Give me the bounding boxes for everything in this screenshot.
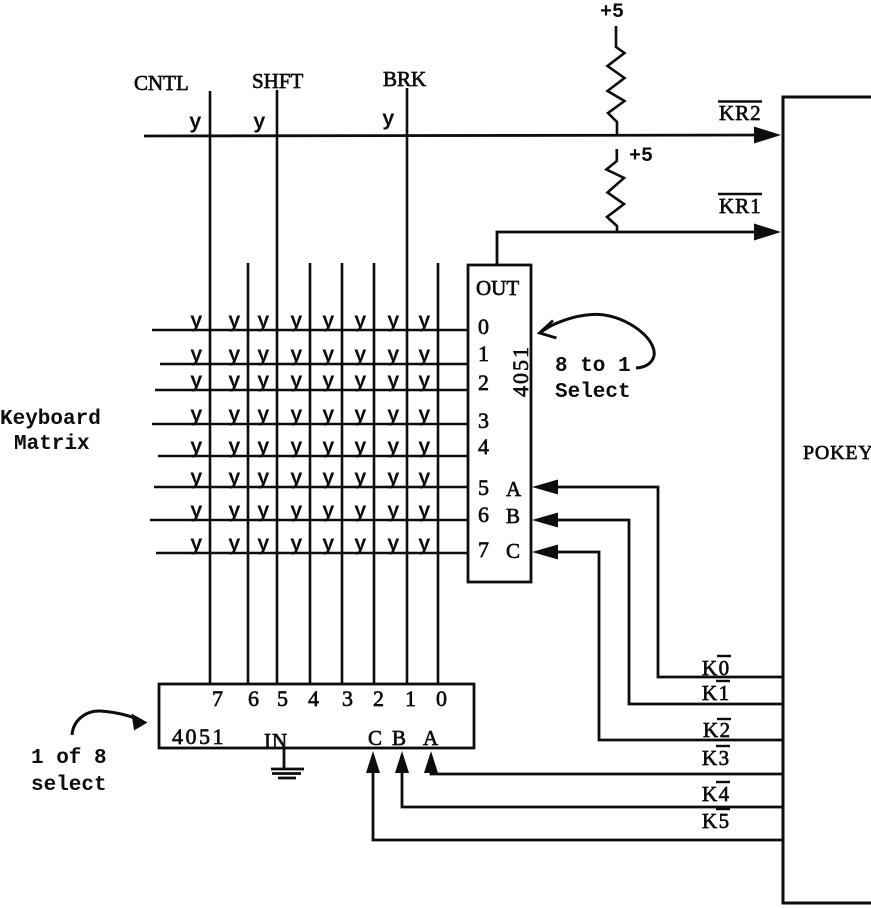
svg-text:y: y (228, 345, 241, 368)
svg-text:y: y (354, 345, 367, 368)
svg-text:y: y (387, 437, 400, 460)
svg-text:y: y (290, 345, 303, 368)
wire matrix row 5 (154, 486, 468, 489)
wire matrix row 3 (152, 423, 468, 426)
svg-text:y: y (354, 501, 367, 524)
svg-text:K0: K0 (702, 656, 731, 680)
svg-text:+5: +5 (629, 145, 653, 168)
label K0 (702, 656, 731, 680)
svg-text:y: y (322, 501, 335, 524)
arrowhead KR1 into POKEY (754, 224, 781, 241)
svg-text:y: y (354, 468, 367, 491)
svg-text:CNTL: CNTL (134, 71, 189, 95)
resistor R2 (606, 149, 624, 232)
svg-text:Keyboard: Keyboard (0, 408, 101, 431)
svg-text:select: select (31, 774, 107, 797)
wire column 5 (341, 263, 344, 684)
svg-text:y: y (257, 345, 270, 368)
wire KR1 net (497, 232, 776, 265)
svg-text:y: y (387, 501, 400, 524)
wire KR2 net (144, 135, 776, 136)
wire matrix row 2 (155, 389, 468, 392)
svg-text:y: y (257, 534, 270, 557)
svg-text:y: y (418, 405, 431, 428)
label KR2 (718, 101, 762, 125)
svg-text:2: 2 (373, 686, 384, 711)
svg-text:SHFT: SHFT (252, 69, 304, 93)
svg-text:K5: K5 (702, 809, 731, 833)
wire matrix row 4 (158, 455, 468, 458)
svg-text:y: y (387, 405, 400, 428)
wire K4 to B (402, 772, 783, 807)
svg-text:3: 3 (478, 408, 489, 433)
wire K5 to C (373, 772, 783, 840)
svg-text:y: y (190, 437, 203, 460)
svg-text:y: y (322, 311, 335, 334)
svg-text:y: y (354, 371, 367, 394)
svg-text:y: y (290, 468, 303, 491)
svg-text:y: y (257, 311, 270, 334)
wire column 6 (373, 263, 376, 684)
wire column CNTL (209, 91, 212, 684)
wire column 2 (247, 263, 250, 684)
svg-text:y: y (322, 345, 335, 368)
svg-text:4051: 4051 (172, 724, 226, 749)
arrowhead B (532, 513, 558, 528)
svg-text:A: A (423, 726, 439, 750)
svg-text:y: y (387, 534, 400, 557)
svg-text:y: y (190, 501, 203, 524)
svg-text:3: 3 (342, 686, 353, 711)
svg-text:y: y (228, 311, 241, 334)
svg-text:y: y (418, 345, 431, 368)
svg-text:KR2: KR2 (719, 101, 762, 125)
wire matrix row 6 (150, 519, 468, 522)
label K1 (702, 681, 731, 705)
svg-text:Matrix: Matrix (14, 433, 90, 456)
svg-text:y: y (190, 311, 203, 334)
svg-text:y: y (290, 405, 303, 428)
wire matrix row 1 (160, 363, 468, 366)
resistor R1 (608, 26, 625, 135)
curved arrow 8-to-1 (542, 314, 654, 368)
svg-text:y: y (257, 468, 270, 491)
svg-text:6: 6 (478, 502, 489, 527)
wire K3 to A (431, 772, 783, 774)
svg-text:4051: 4051 (508, 345, 533, 397)
POKEY box (783, 97, 871, 903)
svg-text:y: y (322, 468, 335, 491)
svg-text:y: y (387, 311, 400, 334)
svg-text:y: y (228, 371, 241, 394)
arrowhead C up (366, 751, 380, 773)
wire column 8 (437, 263, 440, 684)
svg-text:y: y (322, 534, 335, 557)
svg-text:K1: K1 (702, 681, 731, 705)
arrowhead C (532, 545, 558, 560)
svg-text:y: y (190, 345, 203, 368)
arrowhead B up (395, 751, 409, 773)
wire column SHFT (276, 90, 279, 684)
svg-text:y: y (290, 311, 303, 334)
wire C select to K2 (552, 552, 783, 740)
svg-text:Select: Select (555, 381, 631, 404)
svg-text:y: y (382, 109, 395, 132)
svg-text:OUT: OUT (476, 276, 519, 300)
svg-text:y: y (189, 112, 202, 135)
svg-text:y: y (257, 437, 270, 460)
label K4 (702, 782, 731, 806)
svg-text:y: y (290, 501, 303, 524)
svg-text:y: y (190, 405, 203, 428)
svg-text:y: y (322, 371, 335, 394)
svg-text:0: 0 (478, 314, 489, 339)
svg-text:y: y (387, 345, 400, 368)
svg-text:y: y (228, 501, 241, 524)
svg-text:y: y (418, 371, 431, 394)
svg-text:8 to 1: 8 to 1 (555, 355, 631, 378)
svg-text:7: 7 (212, 686, 223, 711)
label K2 (703, 718, 732, 742)
svg-text:K3: K3 (702, 746, 731, 770)
svg-text:POKEY: POKEY (803, 442, 871, 464)
op-amp / mux U1 4051 (8-to-1) box OUT (468, 265, 531, 582)
wire matrix row 7 (156, 552, 468, 555)
svg-text:1: 1 (405, 686, 416, 711)
wire A select to K0 (552, 487, 783, 677)
svg-text:C: C (368, 726, 382, 750)
svg-text:y: y (228, 405, 241, 428)
svg-text:y: y (228, 534, 241, 557)
svg-text:BRK: BRK (383, 67, 426, 91)
svg-text:y: y (418, 501, 431, 524)
svg-text:y: y (418, 311, 431, 334)
svg-text:C: C (506, 539, 520, 563)
svg-text:y: y (418, 534, 431, 557)
matrix y nodes (190, 311, 431, 557)
label KR1 (718, 194, 762, 218)
svg-text:y: y (418, 468, 431, 491)
label K5 (702, 809, 731, 833)
svg-text:A: A (506, 477, 522, 501)
svg-text:K2: K2 (703, 718, 732, 742)
svg-text:2: 2 (478, 370, 489, 395)
svg-text:y: y (257, 371, 270, 394)
svg-text:B: B (506, 504, 520, 528)
curved arrow 1-of-8 (72, 711, 142, 735)
wire column BRK (406, 88, 409, 684)
svg-text:y: y (253, 112, 266, 135)
mux U2 4051 (1-of-8) box (159, 684, 474, 748)
svg-text:K4: K4 (702, 782, 731, 806)
label K3 (702, 746, 731, 770)
svg-text:y: y (354, 311, 367, 334)
wire matrix row 0 (152, 329, 468, 332)
svg-text:B: B (392, 726, 406, 750)
svg-text:y: y (354, 534, 367, 557)
svg-text:y: y (354, 437, 367, 460)
svg-text:y: y (228, 468, 241, 491)
ground (271, 749, 304, 778)
svg-text:y: y (322, 405, 335, 428)
arrowhead KR2 into POKEY (754, 127, 781, 144)
svg-text:y: y (418, 437, 431, 460)
svg-text:KR1: KR1 (719, 194, 762, 218)
svg-text:6: 6 (248, 686, 259, 711)
svg-text:y: y (190, 371, 203, 394)
svg-text:5: 5 (478, 475, 489, 500)
svg-text:4: 4 (478, 434, 489, 459)
wire B select to K1 (552, 520, 783, 704)
svg-text:7: 7 (478, 537, 489, 562)
svg-text:+5: +5 (600, 1, 624, 24)
svg-text:y: y (190, 534, 203, 557)
arrowhead A (532, 480, 558, 495)
svg-text:5: 5 (277, 686, 288, 711)
svg-text:y: y (257, 501, 270, 524)
svg-text:y: y (290, 534, 303, 557)
svg-text:y: y (387, 468, 400, 491)
arrowhead A up (424, 751, 438, 773)
svg-text:1: 1 (478, 341, 489, 366)
svg-text:y: y (190, 468, 203, 491)
svg-text:y: y (228, 437, 241, 460)
svg-text:y: y (290, 371, 303, 394)
svg-text:y: y (257, 405, 270, 428)
svg-text:y: y (322, 437, 335, 460)
svg-text:4: 4 (308, 686, 319, 711)
svg-text:0: 0 (436, 686, 447, 711)
svg-text:y: y (387, 371, 400, 394)
svg-text:1 of 8: 1 of 8 (31, 747, 107, 770)
svg-text:y: y (354, 405, 367, 428)
svg-text:y: y (290, 437, 303, 460)
wire column 4 (309, 263, 312, 684)
